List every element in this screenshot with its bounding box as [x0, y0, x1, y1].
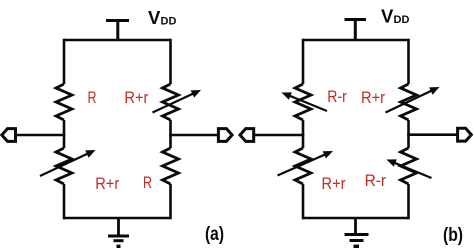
wire top (b) [303, 39, 409, 42]
svg-text:R+r: R+r [124, 89, 148, 107]
wire right-branch middle (b) [407, 120, 410, 148]
wire left-branch lower (b) [302, 184, 305, 219]
svg-text:R-r: R-r [365, 172, 387, 190]
svg-text:R+r: R+r [322, 175, 346, 193]
VDD supply symbol (a) [106, 21, 129, 41]
wire left-branch upper (b) [302, 39, 305, 84]
svg-text:R: R [143, 174, 152, 192]
VDD supply symbol (b) [345, 20, 367, 41]
arrow of variable resistor (a top-right) [153, 90, 202, 113]
arrow of variable resistor (b bottom-left) [278, 151, 334, 176]
VDD label (b) [381, 6, 409, 27]
variable resistor R+r (b top-right) [401, 84, 417, 120]
port OUT (b, right) [458, 128, 472, 141]
port IN (b, left) [240, 129, 254, 142]
wire left-branch middle (b) [302, 120, 305, 148]
port OUT- (a, left) [2, 129, 16, 142]
node OUT- wire (a) [15, 134, 65, 137]
ground (a) [108, 218, 129, 246]
arrow of variable resistor (a bottom-left) [40, 150, 96, 176]
wire bottom (a) [64, 217, 171, 220]
svg-text:DD: DD [394, 14, 410, 26]
node IN wire (b) [253, 134, 304, 137]
wire top (a) [64, 39, 171, 42]
svg-text:DD: DD [161, 16, 177, 28]
arrow of variable resistor (b top-right) [386, 87, 440, 113]
svg-text:R+r: R+r [361, 89, 385, 107]
wire right-branch lower (a) [169, 184, 172, 219]
svg-text:R: R [88, 89, 97, 107]
variable resistor R-r (b bottom-right) [401, 148, 417, 184]
wire right-branch upper (b) [407, 39, 410, 84]
wire right-branch middle (a) [169, 120, 172, 148]
wire bottom (b) [303, 217, 409, 220]
arrow of variable resistor (b bottom-right) [387, 159, 432, 178]
port OUT+ (a, right) [218, 129, 232, 142]
svg-text:(a): (a) [205, 224, 224, 245]
variable resistor R+r (a bottom-left) [56, 148, 72, 184]
VDD label (a) [148, 7, 176, 28]
ground (b) [345, 218, 369, 246]
arrow of variable resistor (b top-left) [282, 92, 328, 111]
wire right-branch lower (b) [407, 184, 410, 219]
svg-text:V: V [381, 6, 394, 27]
svg-text:R-r: R-r [327, 88, 347, 106]
wire left-branch lower (a) [63, 184, 66, 219]
resistor R (a bottom-right) [163, 148, 179, 184]
wire left-branch upper (a) [63, 39, 66, 84]
variable resistor R+r (b bottom-left) [295, 148, 311, 184]
svg-text:(b): (b) [443, 225, 463, 246]
svg-text:V: V [148, 7, 161, 28]
variable resistor R-r (b top-left) [295, 84, 311, 120]
node OUT wire (b) [407, 133, 457, 136]
variable resistor R+r (a top-right) [163, 84, 179, 120]
svg-text:R+r: R+r [95, 175, 119, 193]
wire left-branch middle (a) [63, 120, 66, 148]
wire right-branch upper (a) [169, 39, 172, 84]
node OUT+ wire (a) [169, 134, 218, 137]
resistor R (a top-left) [56, 84, 72, 120]
